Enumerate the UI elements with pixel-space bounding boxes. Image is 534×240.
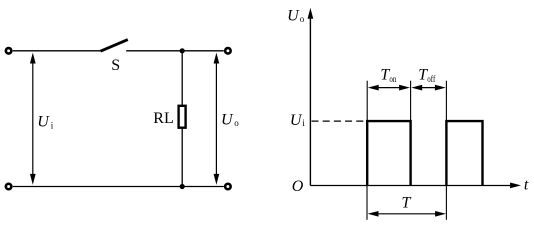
svg-text:on: on — [389, 74, 396, 84]
svg-text:U: U — [290, 112, 303, 129]
svg-text:t: t — [524, 177, 529, 194]
svg-text:o: o — [300, 14, 305, 24]
svg-text:U: U — [37, 114, 50, 131]
svg-text:off: off — [427, 74, 435, 84]
svg-text:U: U — [287, 8, 300, 25]
svg-text:RL: RL — [153, 110, 173, 127]
svg-text:S: S — [111, 57, 120, 74]
svg-text:O: O — [292, 178, 304, 195]
svg-text:T: T — [402, 195, 412, 212]
svg-text:i: i — [51, 120, 54, 130]
svg-text:i: i — [302, 118, 305, 128]
svg-text:U: U — [221, 112, 234, 129]
svg-text:o: o — [234, 118, 239, 128]
